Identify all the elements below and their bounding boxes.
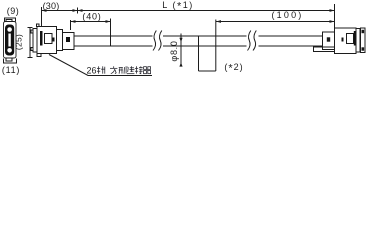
leader line bbox=[49, 55, 152, 76]
left side view: step bbox=[57, 30, 63, 51]
arrow 100 left bbox=[216, 20, 221, 23]
right connector: screw tick bbox=[342, 38, 344, 42]
arrow row1 left bbox=[42, 9, 47, 12]
left side view: boot bbox=[63, 33, 75, 50]
glyph zhen bbox=[97, 66, 105, 73]
screw hole top bbox=[7, 27, 12, 32]
label 26-pin connector (CJK drawn as strokes) bbox=[87, 65, 151, 75]
right connector: boot bbox=[323, 32, 335, 50]
left side view: screw tick bbox=[53, 38, 55, 42]
left side view: flange bump bottom bbox=[31, 48, 33, 51]
right connector: body bbox=[335, 28, 357, 54]
cable segment 3 top bbox=[259, 35, 324, 37]
right connector: screw bar bbox=[354, 31, 356, 46]
arrow 40 left bbox=[71, 20, 76, 23]
left side view: screw bar bbox=[40, 31, 43, 46]
cable segment 1 bottom bbox=[74, 45, 153, 47]
left side view: bottom tab bbox=[37, 54, 41, 57]
end view top tab bbox=[6, 20, 12, 22]
svg-text:(25): (25) bbox=[14, 34, 24, 50]
phi arrow top bbox=[179, 38, 182, 42]
cable segment 1 top bbox=[74, 35, 153, 37]
tick x77.5 row1 bbox=[77, 8, 79, 14]
left side view: boot clamp dot bbox=[66, 37, 70, 42]
face slit bbox=[8, 34, 10, 47]
break 2 curve a bbox=[248, 31, 251, 51]
end view shell bbox=[4, 22, 17, 59]
extension x110 bbox=[110, 19, 112, 47]
right connector: notch top bbox=[362, 30, 365, 33]
extension x70 bbox=[70, 20, 72, 30]
cable segment 2 bottom bbox=[163, 45, 247, 47]
svg-text:(30): (30) bbox=[43, 1, 60, 11]
right connector: flange bbox=[356, 29, 360, 53]
dim line (100) row2 bbox=[216, 21, 335, 23]
dim (25) vertical bbox=[29, 28, 31, 58]
arrow row1 right bbox=[330, 9, 335, 12]
branch box bottom bbox=[199, 70, 216, 72]
arrow 100 right bbox=[330, 20, 335, 23]
left side view: top tab bbox=[37, 24, 40, 27]
cable segment 3 bottom bbox=[259, 45, 324, 47]
branch box right edge / extension bbox=[215, 20, 217, 72]
left side view: flange bump top bbox=[31, 30, 33, 33]
phi dim line bbox=[180, 34, 182, 67]
extension line left x41 bbox=[41, 7, 43, 27]
left side view: body bbox=[37, 27, 57, 54]
arrow row1 mid-left bbox=[73, 9, 78, 12]
arrow 40 right bbox=[106, 20, 111, 23]
right connector: notch bottom bbox=[362, 47, 365, 50]
right connector: screw box bbox=[347, 34, 354, 44]
right connector: bottom latch bar bbox=[314, 47, 335, 52]
svg-text:26: 26 bbox=[87, 65, 97, 75]
bracket (9) bbox=[5, 18, 16, 22]
svg-text:φ8.0: φ8.0 bbox=[169, 40, 179, 61]
svg-text:(100): (100) bbox=[271, 10, 303, 20]
dim line L row1 bbox=[41, 10, 335, 12]
svg-text:(11): (11) bbox=[2, 65, 20, 75]
glyph fang bbox=[110, 66, 117, 73]
arrow row1 mid-right bbox=[78, 9, 83, 12]
glyph jie bbox=[135, 66, 143, 73]
svg-text:(9): (9) bbox=[7, 6, 20, 16]
break 2 curve b bbox=[253, 31, 256, 51]
glyph xing bbox=[119, 66, 126, 73]
branch box left edge bbox=[198, 36, 200, 71]
dim line (40) row2 bbox=[71, 21, 111, 23]
right connector: boot clamp dot bbox=[327, 37, 330, 41]
glyph lian bbox=[127, 66, 134, 73]
break 1 curve b bbox=[159, 31, 162, 51]
bracket (11) bbox=[4, 59, 17, 64]
left side view: flange bbox=[33, 29, 37, 53]
left side view: screw box bbox=[45, 34, 53, 44]
screw hole bottom bbox=[7, 48, 12, 53]
phi arrow bottom bbox=[179, 62, 182, 66]
cable segment 2 top bbox=[163, 35, 247, 37]
end view black face bbox=[5, 25, 14, 56]
break 1 curve a bbox=[153, 31, 156, 51]
glyph qi bbox=[144, 67, 151, 74]
right connector: end plate bbox=[361, 28, 366, 53]
svg-text:(40): (40) bbox=[82, 12, 101, 22]
end view bottom tab bbox=[6, 58, 12, 61]
extension line right x334.5 bbox=[334, 4, 336, 29]
